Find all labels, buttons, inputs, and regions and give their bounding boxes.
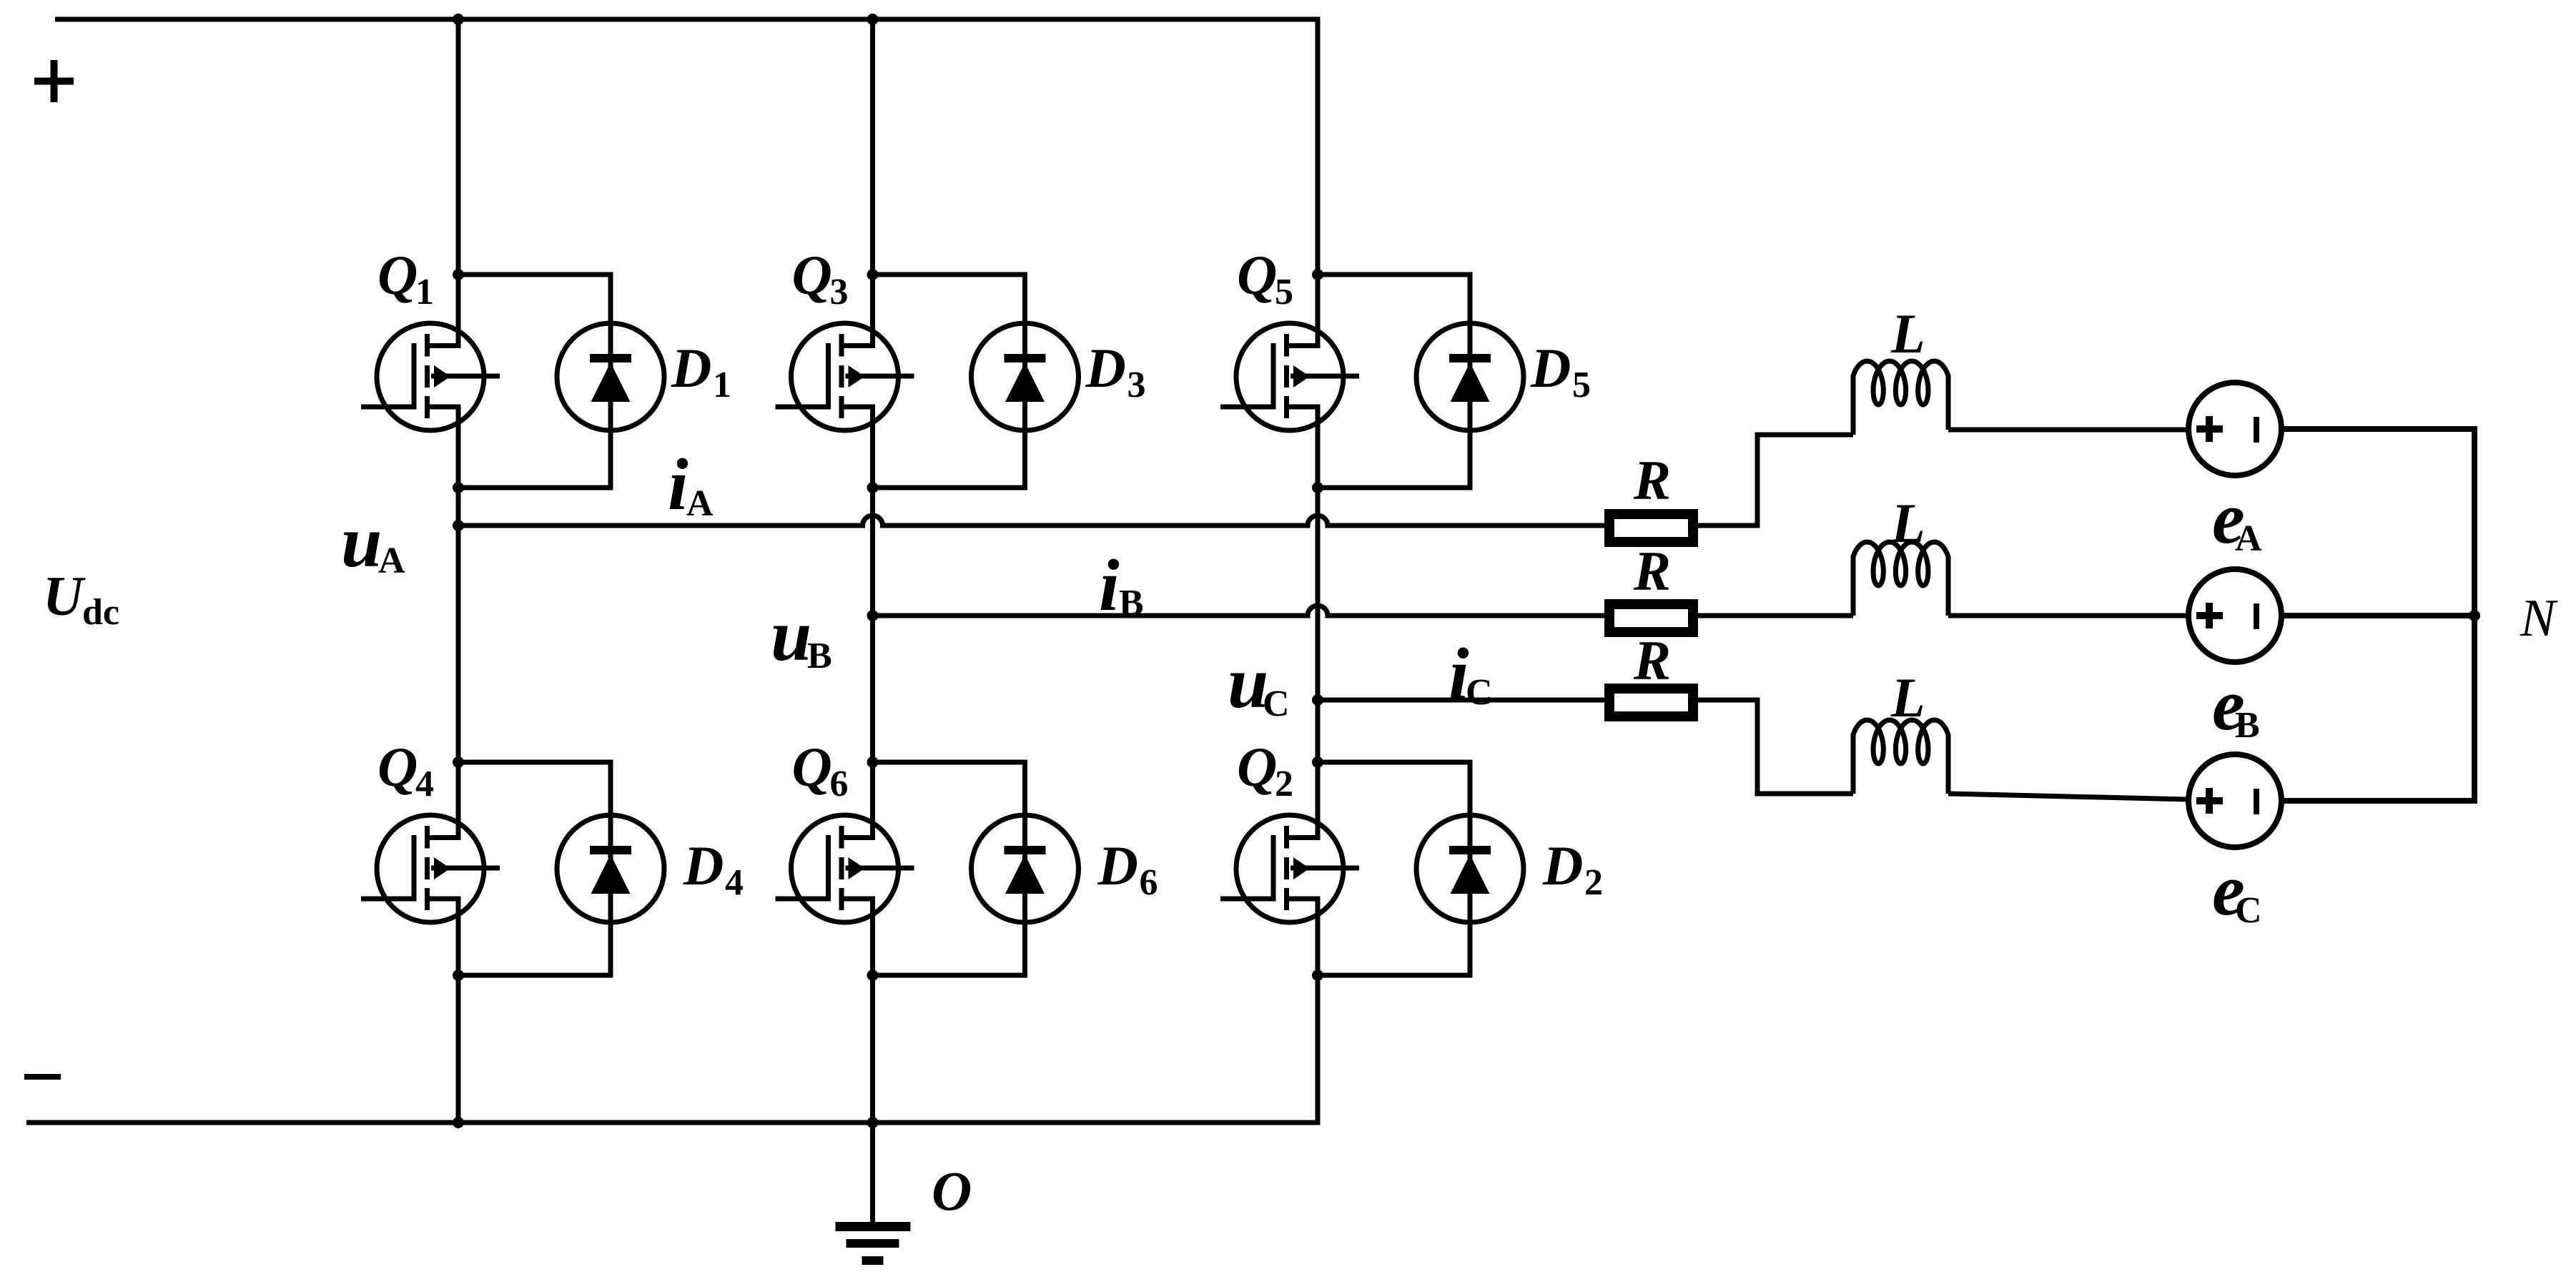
node: Q3 source junction (867, 482, 879, 493)
inductor L (phase B) (1853, 542, 1948, 616)
svg-text:1: 1 (415, 272, 434, 312)
label: iA (668, 444, 714, 526)
wire: phase B resistor to inductor (1698, 613, 1853, 618)
label: Q1 (377, 244, 434, 312)
svg-text:5: 5 (1572, 365, 1591, 405)
transistor Q6 (776, 815, 914, 922)
svg-text:B: B (807, 636, 832, 676)
svg-text:D: D (683, 834, 724, 897)
label: Q4 (377, 736, 434, 804)
svg-text:Q: Q (377, 244, 418, 306)
wire: phase C output (1318, 698, 1604, 703)
node: phase B output junction (867, 610, 879, 621)
node N (2469, 610, 2480, 621)
wire: phase B output with crossover hop (873, 606, 1605, 616)
wire: phase B inductor to source eB (1948, 613, 2188, 618)
wire: phase A output with crossover hops (458, 516, 1604, 526)
EMF source eB (2188, 569, 2281, 662)
node: Q5 source junction (1312, 482, 1323, 493)
wire: D4 branch vertical (608, 762, 613, 975)
svg-text:u: u (341, 501, 382, 583)
wire: D6 branch top (873, 760, 1028, 765)
node: leg A on positive bus (453, 14, 464, 25)
svg-text:i: i (1099, 545, 1120, 626)
transistor Q3 (776, 323, 914, 430)
svg-text:U: U (43, 565, 86, 627)
wire: phase C inductor to source eC (1948, 794, 2188, 799)
svg-text:Q: Q (792, 736, 832, 798)
diode D4 (557, 815, 664, 922)
svg-text:u: u (771, 595, 811, 676)
wire: phase C riser down (1755, 698, 1760, 794)
svg-text:A: A (686, 483, 714, 524)
wire: D4 branch top (458, 760, 613, 765)
svg-text:B: B (1119, 583, 1144, 623)
wire: D2 branch vertical (1468, 762, 1473, 975)
svg-text:N: N (2520, 589, 2558, 648)
label: uC (1228, 642, 1290, 724)
wire: phase A resistor to riser (1698, 523, 1760, 528)
svg-text:2: 2 (1584, 862, 1603, 903)
label: D5 (1530, 337, 1591, 405)
svg-text:L: L (1890, 302, 1925, 365)
svg-text:4: 4 (415, 764, 434, 804)
node: leg A on negative bus (453, 1117, 464, 1128)
svg-text:6: 6 (1140, 862, 1158, 903)
node: Q2 source junction (1312, 970, 1323, 981)
wire: eB to neutral bus (2281, 613, 2474, 618)
node: phase A output junction (453, 520, 464, 531)
wire: D6 branch vertical (1022, 762, 1027, 975)
node: Q1 source junction (453, 482, 464, 493)
svg-text:C: C (2235, 890, 2262, 931)
wire: D1 branch bottom (458, 485, 613, 490)
svg-text:D: D (671, 337, 711, 399)
label: D4 (683, 834, 744, 903)
wire: leg B from positive bus to Q drain (870, 17, 875, 346)
transistor Q4 (361, 815, 500, 922)
label: Udc (43, 565, 119, 633)
label: Q6 (792, 736, 849, 804)
svg-text:B: B (2235, 705, 2260, 746)
wire: leg C lower section to negative bus (1316, 899, 1321, 1123)
svg-text:D: D (1542, 834, 1583, 897)
wire: leg C mid section (phase node C) (1316, 407, 1321, 838)
svg-text:R: R (1633, 540, 1671, 602)
svg-text:Q: Q (792, 244, 832, 306)
svg-text:A: A (2235, 518, 2262, 559)
diode D6 (972, 815, 1079, 922)
node: Q6 drain junction (867, 756, 879, 768)
wire: phase A inductor to source eA (1948, 428, 2188, 433)
svg-text:3: 3 (1127, 365, 1146, 405)
EMF source eA (2188, 383, 2281, 475)
wire: eC to neutral bus (2281, 798, 2477, 804)
node: phase C output junction (1312, 694, 1323, 706)
wire: leg B mid section (phase node B) (870, 407, 875, 838)
label: eA (2212, 478, 2262, 559)
inductor L (phase A) (1853, 361, 1948, 435)
wire: phase A riser to inductor (1755, 433, 1854, 438)
wire: leg A mid section (phase node A) (456, 407, 461, 838)
wire: leg A lower section to negative bus (456, 899, 461, 1123)
svg-text:6: 6 (830, 764, 849, 804)
wire: leg A from positive bus to Q drain (456, 17, 461, 346)
label: iB (1099, 545, 1144, 626)
node: Q2 drain junction (1312, 756, 1323, 768)
label: eB (2212, 664, 2260, 746)
label: iC (1449, 633, 1493, 715)
svg-text:Q: Q (1237, 244, 1277, 306)
svg-text:dc: dc (82, 592, 119, 633)
svg-text:R: R (1633, 629, 1671, 691)
node: leg B on positive bus (867, 14, 879, 25)
wire: D3 branch bottom (873, 485, 1028, 490)
label: uA (341, 501, 405, 583)
label: uB (771, 595, 832, 676)
wire: positive DC bus (55, 17, 1321, 22)
node: Q1 drain junction (453, 269, 464, 280)
ground (836, 1222, 911, 1265)
diode D2 (1416, 815, 1524, 922)
wire: leg B lower section to negative bus (870, 899, 875, 1123)
diode D1 (557, 323, 664, 430)
svg-text:L: L (1890, 666, 1925, 729)
node: Q3 drain junction (867, 269, 879, 280)
wire: neutral bus vertical (2472, 426, 2477, 804)
label: - terminal of Udc (24, 1074, 61, 1080)
node: Q6 source junction (867, 970, 879, 981)
svg-text:O: O (932, 1160, 972, 1222)
resistor R (phase A) (1609, 514, 1693, 542)
svg-text:1: 1 (713, 365, 731, 405)
label: + terminal of Udc (34, 60, 74, 102)
wire: D5 branch top (1318, 272, 1473, 277)
wire: D4 branch bottom (458, 973, 613, 978)
resistor R (phase B) (1609, 604, 1693, 632)
wire: D5 branch vertical (1468, 275, 1473, 488)
wire: D1 branch vertical (608, 275, 613, 488)
wire: negative DC bus (26, 1120, 1321, 1125)
wire: D3 branch top (873, 272, 1028, 277)
resistor R (phase C) (1609, 689, 1693, 716)
wire: phase A riser up (1755, 435, 1760, 528)
svg-text:3: 3 (830, 272, 849, 312)
node: Q4 drain junction (453, 756, 464, 768)
label: Q5 (1237, 244, 1293, 312)
svg-text:D: D (1085, 337, 1126, 399)
wire: ground stem at O (870, 1123, 875, 1227)
label: D1 (671, 337, 731, 405)
transistor Q5 (1220, 323, 1359, 430)
svg-text:Q: Q (1237, 736, 1277, 798)
svg-text:5: 5 (1275, 272, 1293, 312)
wire: D5 branch bottom (1318, 485, 1473, 490)
wire: D1 branch top (458, 272, 613, 277)
svg-text:R: R (1633, 449, 1671, 511)
svg-text:C: C (1466, 672, 1493, 713)
svg-text:D: D (1530, 337, 1571, 399)
diode D3 (972, 323, 1079, 430)
node: Q4 source junction (453, 970, 464, 981)
wire: D2 branch bottom (1318, 973, 1473, 978)
wire: D6 branch bottom (873, 973, 1028, 978)
inductor L (phase C) (1853, 720, 1948, 794)
label: eC (2212, 849, 2262, 931)
svg-text:D: D (1097, 834, 1138, 897)
wire: leg C from positive bus to Q drain (1316, 17, 1321, 346)
label: Q3 (792, 244, 849, 312)
transistor Q2 (1220, 815, 1359, 922)
wire: phase C resistor to riser (1698, 698, 1760, 703)
wire: D3 branch vertical (1022, 275, 1027, 488)
label: D2 (1542, 834, 1603, 903)
wire: eA to neutral bus (2281, 426, 2477, 432)
label: D3 (1085, 337, 1146, 405)
label: D6 (1097, 834, 1158, 903)
wire: phase C riser to inductor (1755, 792, 1854, 797)
EMF source eC (2188, 754, 2281, 847)
svg-text:4: 4 (725, 862, 744, 903)
svg-text:Q: Q (377, 736, 418, 798)
node: leg B on negative bus (867, 1117, 879, 1128)
svg-text:A: A (378, 541, 405, 581)
transistor Q1 (361, 323, 500, 430)
svg-text:2: 2 (1275, 764, 1293, 804)
svg-text:C: C (1263, 684, 1290, 724)
label: Q2 (1237, 736, 1293, 804)
svg-text:i: i (668, 444, 689, 526)
wire: D2 branch top (1318, 760, 1473, 765)
svg-text:L: L (1890, 492, 1925, 554)
node: Q5 drain junction (1312, 269, 1323, 280)
diode D5 (1416, 323, 1524, 430)
